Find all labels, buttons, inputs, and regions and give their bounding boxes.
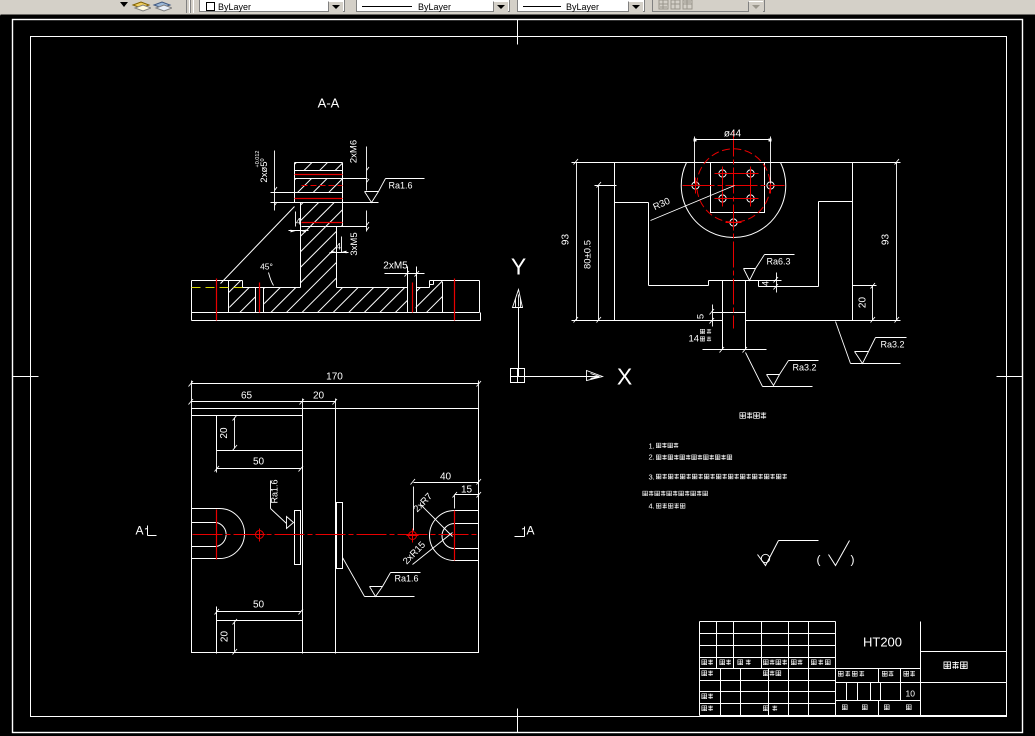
section marker A (left) [145,526,157,536]
title block right grid [700,622,1007,716]
svg-text:2xM6: 2xM6 [349,140,360,163]
svg-text:14: 14 [689,334,700,345]
tech requirement line 4 [643,491,648,496]
red slot axis right [454,511,456,561]
surface finish Ra6.3 [744,255,795,281]
svg-text:2.: 2. [649,453,655,462]
A-A red hole axis lines in base [217,279,455,321]
centering tick top [517,20,519,45]
svg-text:0: 0 [260,158,266,161]
dimension 20 (base height) [871,283,876,323]
UCS Y axis [518,308,520,377]
svg-text:A: A [526,524,534,538]
right view part outline [572,163,901,350]
dimension 2xM6 [367,147,370,191]
rib cross rectangle (left of web) [295,511,301,565]
svg-text:Ra6.3: Ra6.3 [767,257,791,267]
radius leader R30 [651,186,735,221]
dimension 50 (top) [215,451,304,473]
svg-text:170: 170 [326,372,343,383]
dimension 4 (step) [759,273,782,293]
dimension 170 [189,381,482,409]
dimension phi44 [695,137,771,184]
svg-text:3xM5: 3xM5 [349,232,360,255]
linetype combobox ByLayer [356,0,510,12]
svg-text:93: 93 [881,234,892,246]
part name jiajuti [944,662,951,669]
toolbar separator [186,0,190,13]
centering tick right [997,376,1023,378]
surface finish Ra1.6 (rotated, at rib) [271,481,294,529]
tech requirements title [740,413,746,419]
plan outer rectangle [192,409,479,653]
svg-text:4: 4 [296,217,301,227]
U slot (left) [192,509,245,559]
svg-text:50: 50 [253,600,265,611]
A-A hatching: column [301,203,343,288]
svg-text:4: 4 [761,281,771,286]
plan red centerline [193,534,477,536]
dimension 15 [453,492,482,509]
surface finish Ra1.6 (leader bottom) [343,558,421,597]
svg-text:20: 20 [858,297,869,309]
svg-text:80±0.5: 80±0.5 [583,240,594,269]
dimension 4 (left step) [289,212,309,231]
svg-text:HT200: HT200 [863,635,902,650]
red hole crosshairs [696,167,771,223]
color combobox ByLayer [199,0,345,12]
svg-text:93: 93 [561,234,572,246]
radius leader 2xR15 [413,533,453,565]
title block left grid [700,622,836,716]
rib cross rectangle (right of web) [337,503,343,569]
disabled plot style combobox [652,0,765,12]
svg-text:Ra1.6: Ra1.6 [389,181,413,191]
UCS origin box [511,369,525,383]
plan inner structure bottom-left [217,607,303,654]
dimension 3xM5 [367,211,370,232]
UCS X axis [525,376,587,378]
surface finish Ra1.6 (A-A) [365,179,425,203]
svg-text:20: 20 [313,391,325,402]
red hole circle right [407,529,419,543]
centering tick left [13,376,39,378]
svg-text:ø44: ø44 [724,129,742,140]
svg-text:Ra1.6: Ra1.6 [270,479,280,503]
layer icon 1 [131,0,151,14]
svg-text:X: X [617,364,632,390]
svg-text:50: 50 [253,457,265,468]
svg-text:3.: 3. [649,473,655,482]
svg-text:4.: 4. [649,502,655,511]
slot (right) [430,511,479,561]
red vertical centerline [733,131,735,329]
cut-off combo dropdown arrow [120,2,128,7]
svg-text:Ra3.2: Ra3.2 [793,363,817,373]
svg-text:40: 40 [440,472,452,483]
title block small labels [702,660,707,665]
dimension 4 (right step) [330,237,349,253]
dimension 2xM5 [385,271,425,277]
svg-text:45°: 45° [260,262,273,272]
dimension 20 (top) [303,399,338,405]
boss circle (trimmed at body top) [681,163,785,238]
A-A red section lines in flange [295,175,343,223]
svg-text:20: 20 [219,427,230,439]
dimension 2xphi5 with tolerance [271,151,301,211]
svg-text:Ra3.2: Ra3.2 [881,340,905,350]
dimension 20 (upper-left vertical) [233,415,238,451]
svg-text:20: 20 [220,631,231,643]
column cross-section square [711,163,765,213]
centering tick bottom [517,709,519,733]
dimension 5 [710,305,723,327]
overall surface finish symbol [758,541,819,566]
svg-text:5: 5 [696,314,707,319]
red hole circle left [253,529,266,542]
AutoCAD object properties toolbar [0,0,1035,16]
plan vertical web lines [303,409,336,654]
svg-text:2xM5: 2xM5 [383,261,408,272]
svg-text:1.: 1. [649,442,655,451]
A-A hatching: base regions [229,281,443,313]
red bolt circle [697,149,770,222]
svg-text:): ) [851,553,855,567]
layer icon 2 [152,0,172,14]
svg-text:A-A: A-A [318,96,340,111]
red slot axis left [216,510,218,560]
section marker A (right) [515,527,525,537]
plan inner structure top-left [192,416,303,451]
dimension 80+-0.5 [595,182,617,323]
A-A hatching: flange top band [295,163,343,171]
red horizontal centerline [683,185,785,187]
A-A part outline [192,163,481,321]
dimension 93 (left) [572,159,615,323]
bolt holes (white circles) [692,170,774,226]
A-A yellow hidden line [192,287,243,289]
svg-text:65: 65 [241,391,253,402]
svg-text:15: 15 [461,485,473,496]
A-A red dashed thread line [302,185,343,187]
svg-text:Ra1.6: Ra1.6 [395,574,419,584]
dimension 65 [189,399,336,409]
svg-text:(: ( [817,553,821,567]
surface finish Ra3.2 (bottom leader) [746,353,819,387]
dimension 20 (lower-left vertical) [233,619,238,655]
dimension 40 [411,479,482,531]
dimension 50 (bottom) [215,609,304,615]
radius leader 2xR7 [421,505,453,537]
svg-text:Y: Y [511,254,526,280]
surface finish Ra3.2 (right leader) [836,322,907,364]
svg-text:4: 4 [336,242,341,252]
dimension 93 (right) [853,159,901,323]
A-A hatching: flange middle band [295,179,343,193]
lineweight combobox ByLayer [517,0,645,12]
svg-text:10: 10 [906,689,916,699]
svg-text:A: A [135,524,143,538]
dimension 14 (pin fit) [703,347,767,353]
